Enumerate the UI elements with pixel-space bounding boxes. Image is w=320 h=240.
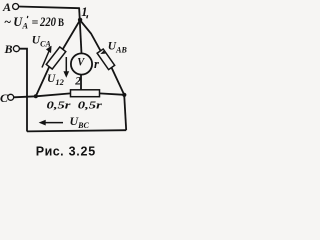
- tick mark after U_A: [27, 16, 29, 18]
- wire phase A horizontal: [18, 7, 79, 9]
- node B terminal: [4, 42, 20, 56]
- wire divider to right corner: [100, 93, 125, 94]
- node C terminal: [0, 91, 14, 105]
- svg-text:UBC: UBC: [70, 114, 90, 130]
- svg-text:Рис.: Рис.: [36, 144, 64, 158]
- wire voltmeter to node 2: [80, 75, 82, 90]
- voltmeter V circle: [71, 53, 92, 74]
- wire right leg (node1 to B corner): [80, 20, 124, 95]
- wire left leg (node1 to C): [36, 21, 80, 97]
- arrow U_BC (points left): [40, 121, 63, 125]
- resistor right leg: [97, 49, 115, 70]
- svg-text:UCA: UCA: [32, 35, 52, 49]
- resistor left leg: [46, 47, 66, 69]
- svg-text:3.25: 3.25: [69, 144, 96, 158]
- resistor divider 0.5r+0.5r: [71, 90, 100, 97]
- node C junction dot: [34, 94, 38, 98]
- wire right rail: [124, 95, 126, 130]
- tick mark near node 1 label: [86, 15, 88, 18]
- svg-text:UAB: UAB: [108, 41, 128, 55]
- svg-text:0,5r: 0,5r: [47, 101, 72, 112]
- wire C to divider: [14, 93, 71, 97]
- svg-text:2: 2: [74, 76, 81, 88]
- svg-text:A: A: [2, 0, 11, 14]
- node 1 junction dot: [78, 18, 82, 22]
- node right corner junction dot: [122, 93, 126, 97]
- svg-text:~UA=220В: ~UA=220В: [4, 15, 64, 31]
- svg-text:V: V: [77, 54, 85, 68]
- svg-text:U12: U12: [47, 73, 65, 87]
- arrow U_CA (points up toward node 1): [42, 47, 51, 68]
- arrowhead on right leg wire (U_AB direction): [100, 51, 105, 54]
- svg-text:r: r: [94, 57, 99, 71]
- svg-text:B: B: [4, 42, 13, 56]
- node A terminal: [2, 0, 19, 14]
- wire bottom rail: [27, 130, 126, 131]
- wire corner down to node 1: [78, 7, 81, 20]
- wire B to left rail: [19, 49, 27, 132]
- wire node1 down to voltmeter: [80, 21, 82, 54]
- arrow U_12 (points down): [64, 57, 68, 77]
- svg-text:1: 1: [81, 5, 87, 19]
- svg-text:0,5r: 0,5r: [78, 101, 103, 112]
